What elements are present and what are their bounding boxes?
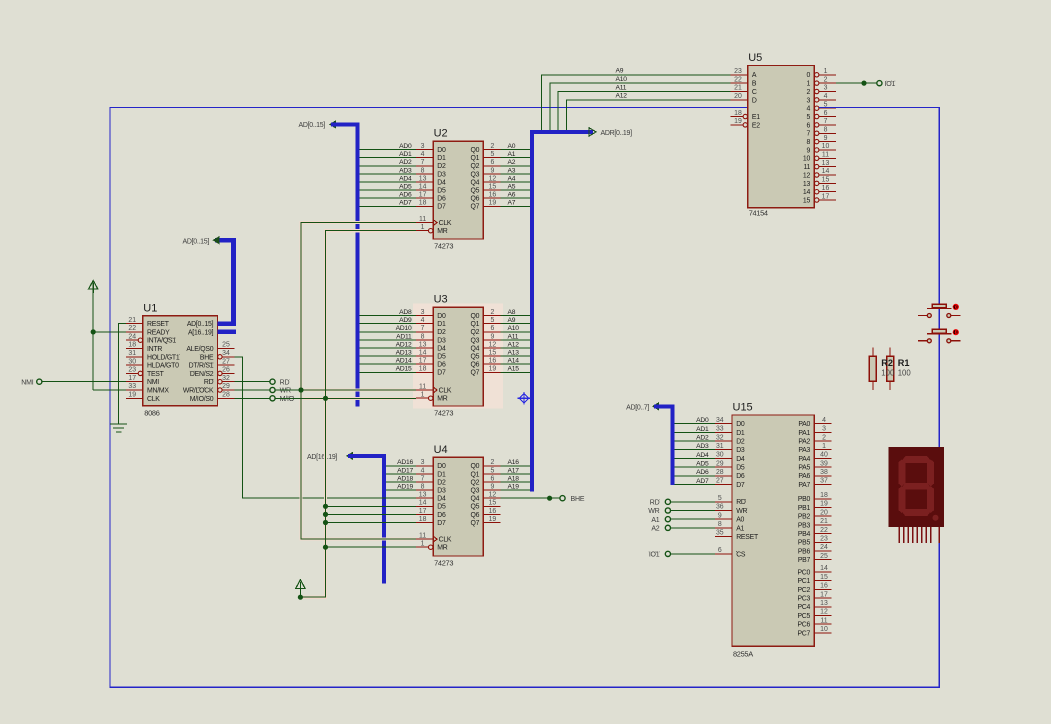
CPU U1 8086 body bbox=[143, 316, 218, 406]
svg-text:Q7: Q7 bbox=[470, 370, 479, 377]
U15 pin 25 PB7 bbox=[814, 559, 831, 561]
wire AD11 bus to U3 bbox=[360, 339, 416, 341]
svg-text:AD4: AD4 bbox=[399, 175, 412, 182]
svg-text:PA0: PA0 bbox=[798, 421, 810, 428]
U2 pin 5 Q1 bbox=[483, 157, 500, 159]
svg-text:A15: A15 bbox=[508, 366, 520, 373]
U5 pin 6 output 5 bbox=[815, 114, 819, 118]
U3 pin 12 Q4 bbox=[483, 347, 500, 349]
svg-text:12: 12 bbox=[803, 172, 811, 179]
svg-text:9: 9 bbox=[807, 147, 811, 154]
wire M/IO terminal to U3 MR bbox=[275, 397, 416, 399]
svg-text:74273: 74273 bbox=[434, 559, 453, 568]
U15 pin 29 D5 bbox=[715, 466, 732, 468]
svg-text:6: 6 bbox=[824, 110, 828, 117]
svg-text:11: 11 bbox=[419, 533, 426, 540]
wire A10 bus to U5 bbox=[550, 83, 731, 130]
svg-text:16: 16 bbox=[820, 583, 828, 590]
svg-text:D6: D6 bbox=[736, 473, 745, 480]
svg-text:D0: D0 bbox=[437, 147, 446, 154]
U5 pin 3 output 2 bbox=[815, 89, 819, 93]
svg-text:D2: D2 bbox=[437, 163, 446, 170]
U15 pin 9 A0 bbox=[715, 518, 732, 520]
svg-text:AD9: AD9 bbox=[399, 317, 412, 324]
svg-text:AD1: AD1 bbox=[696, 426, 709, 433]
svg-text:Q3: Q3 bbox=[470, 337, 479, 344]
wire AD6 bus to U2 bbox=[360, 197, 416, 199]
svg-text:MR: MR bbox=[437, 545, 447, 552]
U2 pin 1 MR bbox=[416, 230, 429, 232]
svg-text:AD3: AD3 bbox=[399, 167, 412, 174]
U15 pin 1 PA3 bbox=[814, 449, 831, 451]
svg-text:100: 100 bbox=[898, 369, 912, 378]
svg-text:21: 21 bbox=[820, 518, 828, 525]
svg-text:9: 9 bbox=[490, 167, 494, 174]
PPI U15 8255A body bbox=[732, 415, 814, 646]
svg-text:A2: A2 bbox=[651, 525, 659, 532]
svg-text:PA7: PA7 bbox=[798, 482, 810, 489]
U5 pin 9 output 8 bbox=[815, 139, 819, 143]
svg-text:8: 8 bbox=[824, 126, 828, 133]
wire AD17 bus to U4 bbox=[386, 473, 416, 475]
svg-text:Q1: Q1 bbox=[470, 321, 479, 328]
U5 pin 17 output 15 bbox=[815, 198, 819, 202]
U4 pin 1 MR bbox=[416, 546, 429, 548]
svg-text:74273: 74273 bbox=[434, 409, 453, 418]
U5 pin 23 A bbox=[731, 74, 748, 76]
U5 pin 19 E2 bbox=[731, 124, 744, 126]
svg-text:WR: WR bbox=[736, 508, 747, 515]
svg-text:7: 7 bbox=[421, 475, 425, 482]
U15 pin 6 CS bbox=[715, 553, 732, 555]
bus arrow AD[0..15] at U1 bbox=[213, 236, 220, 244]
svg-text:28: 28 bbox=[222, 392, 230, 399]
svg-text:D6: D6 bbox=[437, 196, 446, 203]
U4 pin 3 D0 bbox=[416, 465, 433, 467]
svg-text:A16: A16 bbox=[508, 459, 520, 466]
U4 pin 12 Q4 bbox=[483, 497, 500, 499]
svg-text:A18: A18 bbox=[508, 475, 520, 482]
wire A3 to bus bbox=[500, 173, 530, 175]
button SW1 bbox=[932, 304, 946, 308]
U1 pin 30 HLDA/GT0 bbox=[126, 364, 143, 366]
U15 pin 34 D0 bbox=[715, 423, 732, 425]
svg-text:2: 2 bbox=[824, 76, 828, 83]
svg-text:20: 20 bbox=[734, 93, 742, 100]
svg-text:33: 33 bbox=[716, 426, 724, 433]
svg-text:AD15: AD15 bbox=[396, 366, 412, 373]
U3 pin 4 D1 bbox=[416, 323, 433, 325]
svg-text:A3: A3 bbox=[508, 167, 516, 174]
svg-text:6: 6 bbox=[490, 159, 494, 166]
svg-text:17: 17 bbox=[419, 508, 427, 515]
svg-text:5: 5 bbox=[718, 495, 722, 502]
svg-text:17: 17 bbox=[822, 193, 830, 200]
svg-text:4: 4 bbox=[421, 467, 425, 474]
U5 pin 22 B bbox=[731, 82, 748, 84]
U3 pin 7 D2 bbox=[416, 331, 433, 333]
svg-text:Q2: Q2 bbox=[470, 479, 479, 486]
wire A9 bus to U5 bbox=[542, 75, 731, 130]
U3 pin 18 D7 bbox=[416, 371, 433, 373]
selection halo on CLK/MR nets bbox=[300, 223, 416, 598]
wire V2 to U4 D5 bbox=[326, 505, 417, 507]
svg-text:D6: D6 bbox=[437, 362, 446, 369]
svg-text:D1: D1 bbox=[437, 471, 446, 478]
svg-text:RESET: RESET bbox=[147, 321, 170, 328]
wire A12 to bus bbox=[500, 347, 530, 349]
terminal WR at U15 bbox=[665, 508, 670, 513]
U5 pin 18 E1 bbox=[731, 116, 744, 118]
button SW2 bbox=[932, 329, 946, 333]
wire AD12 bus to U3 bbox=[360, 347, 416, 349]
svg-text:19: 19 bbox=[820, 501, 828, 508]
U2 pin 11 CLK bbox=[416, 222, 433, 224]
U3 pin 14 D5 bbox=[416, 355, 433, 357]
U15 pin 5 RD bbox=[715, 501, 732, 503]
svg-text:14: 14 bbox=[419, 500, 427, 507]
svg-text:2: 2 bbox=[807, 89, 811, 96]
U3 pin 8 D3 bbox=[416, 339, 433, 341]
svg-text:8255A: 8255A bbox=[733, 649, 753, 658]
svg-text:36: 36 bbox=[716, 504, 724, 511]
svg-text:MR: MR bbox=[437, 228, 447, 235]
U5 pin 11 output 10 bbox=[815, 156, 819, 160]
U4 pin 7 D2 bbox=[416, 481, 433, 483]
U2 pin 15 Q5 bbox=[483, 189, 500, 191]
svg-text:21: 21 bbox=[128, 317, 136, 324]
svg-text:14: 14 bbox=[820, 565, 828, 572]
svg-text:15: 15 bbox=[489, 350, 497, 357]
svg-text:RD: RD bbox=[736, 499, 746, 506]
wire A0 to bus bbox=[500, 149, 530, 151]
U1 pin 24 INTA/QS1 bbox=[126, 339, 139, 341]
svg-text:PB3: PB3 bbox=[798, 522, 811, 529]
junction VCC bottom bbox=[298, 595, 303, 600]
svg-text:5: 5 bbox=[490, 467, 494, 474]
wire AD1 bus to U15 bbox=[675, 431, 715, 433]
svg-text:27: 27 bbox=[716, 478, 724, 485]
svg-text:CLK: CLK bbox=[439, 387, 452, 394]
U15 pin 12 PC5 bbox=[814, 615, 831, 617]
junction WR/V1 bbox=[298, 387, 303, 392]
svg-text:8: 8 bbox=[421, 484, 425, 491]
wire AD18 bus to U4 bbox=[386, 481, 416, 483]
svg-text:AD[16..19]: AD[16..19] bbox=[307, 454, 337, 461]
origin marker blue diamond bbox=[518, 392, 531, 405]
svg-text:WR/LOCK: WR/LOCK bbox=[183, 388, 214, 395]
U1 pin 21 RESET bbox=[126, 323, 143, 325]
svg-text:AD6: AD6 bbox=[696, 469, 709, 476]
ground symbol bbox=[110, 423, 127, 425]
svg-text:BHE: BHE bbox=[571, 496, 585, 503]
svg-text:A14: A14 bbox=[508, 358, 520, 365]
wire A5 to bus bbox=[500, 189, 530, 191]
svg-text:A17: A17 bbox=[508, 467, 520, 474]
svg-text:R2: R2 bbox=[881, 358, 893, 368]
svg-text:AD13: AD13 bbox=[396, 350, 412, 357]
svg-text:9: 9 bbox=[824, 135, 828, 142]
U4 pin 18 D7 bbox=[416, 522, 433, 524]
svg-text:6: 6 bbox=[490, 325, 494, 332]
svg-text:M/IO/S0: M/IO/S0 bbox=[190, 396, 214, 403]
latch U3 74273 body bbox=[433, 307, 483, 406]
svg-text:PC3: PC3 bbox=[797, 596, 810, 603]
svg-text:D7: D7 bbox=[736, 482, 745, 489]
U4 pin 17 D6 bbox=[416, 513, 433, 515]
svg-text:28: 28 bbox=[716, 469, 724, 476]
svg-text:WR: WR bbox=[280, 388, 291, 395]
U4 pin 19 Q7 bbox=[483, 522, 500, 524]
svg-text:AD[0..7]: AD[0..7] bbox=[626, 404, 649, 411]
svg-text:D5: D5 bbox=[437, 504, 446, 511]
svg-text:9: 9 bbox=[718, 512, 722, 519]
svg-text:17: 17 bbox=[419, 192, 427, 199]
svg-text:A10: A10 bbox=[508, 325, 520, 332]
wire MR net vertical V2 bbox=[300, 231, 416, 598]
U3 pin 3 D0 bbox=[416, 315, 433, 317]
svg-text:12: 12 bbox=[489, 175, 497, 182]
U3 pin 5 Q1 bbox=[483, 323, 500, 325]
U15 pin 14 PC0 bbox=[814, 571, 831, 573]
svg-text:12: 12 bbox=[489, 341, 497, 348]
svg-text:U3: U3 bbox=[434, 294, 448, 306]
U15 pin 20 PB2 bbox=[814, 515, 831, 517]
terminal IO1 bbox=[877, 81, 882, 86]
bus AD[16..19] vertical bbox=[348, 456, 384, 584]
svg-text:1: 1 bbox=[822, 443, 826, 450]
svg-text:21: 21 bbox=[734, 85, 742, 92]
svg-text:Q4: Q4 bbox=[470, 496, 479, 503]
svg-text:Q1: Q1 bbox=[470, 471, 479, 478]
junction U4 MR bbox=[323, 545, 328, 550]
svg-text:PA1: PA1 bbox=[798, 430, 810, 437]
svg-text:PC1: PC1 bbox=[797, 578, 810, 585]
svg-text:A7: A7 bbox=[508, 200, 516, 207]
wire AD19 bus to U4 bbox=[386, 489, 416, 491]
sheet border frame bbox=[110, 108, 939, 688]
U4 pin 9 Q3 bbox=[483, 489, 500, 491]
svg-text:15: 15 bbox=[489, 500, 497, 507]
svg-text:19: 19 bbox=[734, 118, 742, 125]
svg-text:ADR[0..19]: ADR[0..19] bbox=[601, 130, 633, 137]
U15 pin 3 PA1 bbox=[814, 431, 831, 433]
svg-text:13: 13 bbox=[419, 492, 427, 499]
svg-text:15: 15 bbox=[820, 574, 828, 581]
U1 pin 32 RD bbox=[222, 381, 235, 383]
wire AD4 bus to U2 bbox=[360, 181, 416, 183]
U2 pin 4 D1 bbox=[416, 157, 433, 159]
svg-text:27: 27 bbox=[222, 358, 230, 365]
svg-text:DEN/S2: DEN/S2 bbox=[190, 371, 214, 378]
svg-text:A5: A5 bbox=[508, 184, 516, 191]
wire BHE from U1 pin34 down to U4 D4 bbox=[235, 357, 417, 498]
wire terminal RD to U15 bbox=[671, 501, 715, 503]
bus arrow AD[16..19] bbox=[346, 452, 353, 460]
svg-text:19: 19 bbox=[128, 392, 136, 399]
svg-text:WR: WR bbox=[648, 508, 659, 515]
svg-text:8: 8 bbox=[421, 333, 425, 340]
svg-text:14: 14 bbox=[803, 189, 811, 196]
U3 pin 19 Q7 bbox=[483, 371, 500, 373]
svg-text:RD: RD bbox=[650, 499, 660, 506]
U2 pin 18 D7 bbox=[416, 205, 433, 207]
U4 pin 2 Q0 bbox=[483, 465, 500, 467]
terminal WR bbox=[270, 387, 275, 392]
U2 pin 14 D5 bbox=[416, 189, 433, 191]
svg-text:U15: U15 bbox=[733, 402, 753, 414]
svg-text:31: 31 bbox=[716, 443, 724, 450]
terminal BHE bbox=[560, 496, 565, 501]
svg-text:11: 11 bbox=[820, 617, 827, 624]
wire A19 to bus bbox=[500, 489, 530, 491]
U15 pin 10 PC7 bbox=[814, 632, 831, 634]
wire AD7 bus to U2 bbox=[360, 205, 416, 207]
bus AD[0..15] from U1 bbox=[215, 240, 234, 323]
wire AD4 bus to U15 bbox=[675, 457, 715, 459]
U15 pin 8 A1 bbox=[715, 527, 732, 529]
svg-text:D: D bbox=[752, 97, 757, 104]
U5 pin 8 output 7 bbox=[815, 131, 819, 135]
svg-text:A1: A1 bbox=[736, 525, 744, 532]
svg-text:INTA/QS1: INTA/QS1 bbox=[147, 338, 176, 345]
junction M-IO/V2 bbox=[323, 396, 328, 401]
svg-text:30: 30 bbox=[128, 358, 136, 365]
wire V2 to U4 D6 bbox=[326, 513, 417, 515]
svg-text:22: 22 bbox=[734, 76, 742, 83]
wire A16 to bus bbox=[500, 465, 530, 467]
U5 pin 10 output 9 bbox=[815, 148, 819, 152]
decoder U5 74154 body bbox=[748, 65, 815, 207]
svg-text:PB6: PB6 bbox=[798, 548, 811, 555]
U3 pin 11 CLK bbox=[416, 389, 433, 391]
svg-text:BHE: BHE bbox=[200, 354, 214, 361]
wire to READY bbox=[93, 331, 126, 333]
svg-text:RD: RD bbox=[280, 379, 290, 386]
svg-text:2: 2 bbox=[490, 143, 494, 150]
svg-text:D7: D7 bbox=[437, 520, 446, 527]
svg-text:8086: 8086 bbox=[144, 408, 159, 417]
U15 pin 30 D4 bbox=[715, 457, 732, 459]
svg-text:AD1: AD1 bbox=[399, 151, 412, 158]
svg-text:2: 2 bbox=[490, 309, 494, 316]
svg-text:AD8: AD8 bbox=[399, 309, 412, 316]
svg-text:R1: R1 bbox=[898, 358, 910, 368]
svg-text:CLK: CLK bbox=[147, 396, 160, 403]
power arrow near U1 bbox=[89, 281, 98, 290]
U2 pin 2 Q0 bbox=[483, 149, 500, 151]
U15 pin 31 D3 bbox=[715, 449, 732, 451]
U5 pin 4 output 3 bbox=[815, 98, 819, 102]
U5 pin 2 output 1 bbox=[815, 81, 819, 85]
svg-text:Q5: Q5 bbox=[470, 354, 479, 361]
wire terminal WR to U15 bbox=[671, 510, 715, 512]
svg-text:8: 8 bbox=[718, 521, 722, 528]
svg-text:9: 9 bbox=[490, 333, 494, 340]
svg-text:INTR: INTR bbox=[147, 346, 162, 353]
svg-text:NMI: NMI bbox=[21, 379, 33, 386]
svg-text:TEST: TEST bbox=[147, 371, 165, 378]
svg-text:PC6: PC6 bbox=[797, 622, 810, 629]
svg-text:13: 13 bbox=[419, 341, 427, 348]
svg-text:AD12: AD12 bbox=[396, 341, 412, 348]
svg-text:HLDA/GT0: HLDA/GT0 bbox=[147, 363, 179, 370]
bus AD[0..7] bbox=[654, 406, 673, 485]
svg-text:AD[0..15]: AD[0..15] bbox=[183, 238, 210, 245]
svg-text:M/IO: M/IO bbox=[280, 396, 295, 403]
U3 pin 9 Q3 bbox=[483, 339, 500, 341]
svg-text:AD19: AD19 bbox=[397, 484, 413, 491]
U5 pin 13 output 11 bbox=[815, 164, 819, 168]
U15 pin 11 PC6 bbox=[814, 623, 831, 625]
wire A9 to bus bbox=[500, 323, 530, 325]
svg-text:A12: A12 bbox=[616, 93, 628, 100]
svg-text:READY: READY bbox=[147, 329, 170, 336]
svg-text:33: 33 bbox=[128, 383, 136, 390]
svg-text:AD18: AD18 bbox=[397, 475, 413, 482]
svg-text:12: 12 bbox=[489, 492, 497, 499]
U2 pin 17 D6 bbox=[416, 197, 433, 199]
svg-text:A9: A9 bbox=[616, 68, 624, 75]
U5 pin 14 output 12 bbox=[815, 173, 819, 177]
svg-text:16: 16 bbox=[822, 185, 830, 192]
7-segment segments bbox=[898, 456, 938, 521]
U4 pin 13 D4 bbox=[416, 497, 433, 499]
svg-text:10: 10 bbox=[822, 143, 830, 150]
svg-text:14: 14 bbox=[419, 184, 427, 191]
bus arrow AD[0..7] bbox=[652, 402, 659, 410]
svg-text:38: 38 bbox=[820, 469, 828, 476]
svg-text:PA4: PA4 bbox=[798, 456, 810, 463]
U15 pin 18 PB0 bbox=[814, 498, 831, 500]
U5 pin 1 output 0 bbox=[815, 73, 819, 77]
svg-text:CLK: CLK bbox=[439, 220, 452, 227]
wire A6 to bus bbox=[500, 197, 530, 199]
svg-text:25: 25 bbox=[820, 553, 828, 560]
svg-text:11: 11 bbox=[803, 164, 810, 171]
latch U4 74273 body bbox=[433, 457, 483, 556]
U3 pin 1 MR bbox=[416, 397, 429, 399]
svg-text:D4: D4 bbox=[437, 179, 446, 186]
terminal A1 at U15 bbox=[665, 517, 670, 522]
svg-text:16: 16 bbox=[489, 508, 497, 515]
U5 pin 16 output 14 bbox=[815, 190, 819, 194]
wire AD14 bus to U3 bbox=[360, 363, 416, 365]
svg-text:23: 23 bbox=[128, 367, 136, 374]
wire A11 to bus bbox=[500, 339, 530, 341]
svg-text:13: 13 bbox=[820, 600, 828, 607]
U15 pin 37 PA7 bbox=[814, 483, 831, 485]
svg-text:E1: E1 bbox=[752, 114, 760, 121]
U15 pin 4 PA0 bbox=[814, 423, 831, 425]
svg-text:18: 18 bbox=[419, 516, 427, 523]
svg-text:3: 3 bbox=[421, 309, 425, 316]
svg-text:D4: D4 bbox=[437, 345, 446, 352]
svg-text:A12: A12 bbox=[508, 341, 520, 348]
svg-text:1: 1 bbox=[421, 392, 425, 399]
U15 pin 16 PC2 bbox=[814, 588, 831, 590]
U5 pin 21 C bbox=[731, 91, 748, 93]
svg-text:AD4: AD4 bbox=[696, 452, 709, 459]
svg-text:4: 4 bbox=[822, 417, 826, 424]
svg-text:39: 39 bbox=[820, 460, 828, 467]
svg-text:9: 9 bbox=[490, 484, 494, 491]
U15 pin 15 PC1 bbox=[814, 580, 831, 582]
svg-text:23: 23 bbox=[734, 68, 742, 75]
svg-text:AD0: AD0 bbox=[399, 143, 412, 150]
U3 pin 13 D4 bbox=[416, 347, 433, 349]
svg-text:20: 20 bbox=[820, 509, 828, 516]
